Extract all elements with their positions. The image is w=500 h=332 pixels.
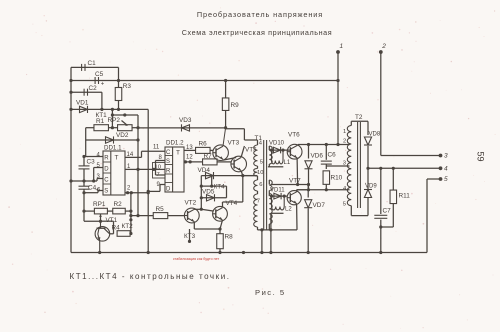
wire VT2 collector [194, 208, 203, 211]
wire R1 row left [86, 127, 94, 129]
pin 12 label DD1.2 [186, 155, 193, 161]
node C7 rail [379, 251, 382, 254]
resistor R4 [112, 225, 131, 237]
svg-text:VD2: VD2 [116, 132, 129, 139]
wire T1 pin5 under L1 [268, 166, 283, 168]
pin 2 label DD1.1 [127, 186, 131, 192]
resistor R11 [381, 168, 410, 227]
wire T1 pin7 under L2 [271, 212, 284, 214]
diode VD11 [270, 188, 285, 200]
svg-text:R7: R7 [204, 153, 213, 160]
svg-text:C7: C7 [383, 208, 392, 215]
svg-text:VD10: VD10 [269, 141, 285, 147]
node VD7 rail [307, 251, 310, 254]
pin 2 label T2 [343, 139, 346, 145]
svg-text:VD5: VD5 [202, 189, 215, 196]
svg-text:10: 10 [257, 170, 263, 176]
wire VD10 row [270, 149, 290, 152]
pin 10 label T1 [257, 170, 263, 176]
wire VD11 row [270, 195, 288, 198]
svg-text:7: 7 [257, 199, 260, 205]
svg-text:L2: L2 [285, 207, 292, 213]
transformer T2 [347, 114, 363, 216]
wire VT6 emitter [296, 158, 299, 186]
caption Рис. 5 [255, 288, 286, 297]
transistor VT7 [287, 178, 301, 205]
svg-text:T: T [115, 155, 119, 162]
diode VD4 [198, 167, 214, 179]
svg-text:VT2: VT2 [185, 200, 197, 207]
wire R6 to VT3 [210, 149, 213, 151]
wire feedback pin1 to DD1.2 [138, 168, 156, 170]
svg-text:1: 1 [340, 43, 344, 50]
wire top rail y80 [71, 80, 338, 82]
wire VT7 collector [297, 190, 309, 192]
diode VD5 [202, 189, 215, 202]
resistor R7 [203, 153, 218, 165]
wire VT4 emitter [218, 220, 222, 231]
pins 10-7 box DD1.2 [152, 163, 165, 179]
svg-text:3: 3 [343, 161, 346, 167]
pin 8 stub DD1.2 [156, 155, 166, 169]
wire R5 row [129, 214, 153, 217]
svg-text:C: C [166, 150, 171, 156]
resistor R1 [94, 118, 109, 131]
potentiometer RP2 [108, 117, 133, 131]
node VD2 bus [136, 138, 139, 141]
wire RP1 row [82, 210, 94, 213]
wire T1 pin10 left [243, 175, 258, 177]
svg-text:R1: R1 [96, 118, 105, 125]
wire T1 pin4 feed [226, 128, 258, 140]
svg-text:VT3: VT3 [228, 140, 240, 147]
svg-text:VD9: VD9 [365, 184, 377, 190]
svg-text:S: S [166, 159, 170, 165]
svg-text:DD1.2: DD1.2 [166, 140, 184, 147]
wire T2 pin1 top route [351, 121, 368, 135]
svg-text:12: 12 [186, 155, 193, 161]
svg-text:C2: C2 [89, 85, 98, 92]
wire VD4 row [201, 175, 243, 177]
svg-text:R11: R11 [399, 193, 411, 200]
title line 1 [197, 10, 323, 19]
pin 5 label DD1.1 [97, 163, 101, 169]
svg-text:L1: L1 [284, 160, 291, 166]
wire DD1.1 pin6 [82, 191, 103, 195]
diode VD2 [106, 132, 129, 144]
svg-text:3: 3 [444, 153, 448, 160]
transistor VT6 [287, 132, 302, 160]
svg-text:R: R [104, 156, 109, 162]
wire KT4 drop [226, 186, 228, 198]
wire R4 left [110, 233, 114, 235]
svg-text:S: S [104, 189, 108, 195]
wire VT5 collector [241, 146, 244, 157]
wire DD1.1 pin3 row [69, 179, 103, 183]
potentiometer RP1 [93, 201, 107, 221]
svg-text:RP1: RP1 [93, 201, 106, 208]
node VD3 right [224, 126, 227, 129]
flip-flop DD1.2 [165, 140, 184, 193]
wire terminal1 down [336, 52, 339, 146]
wire bottom rail [71, 252, 427, 254]
wire R2 right [125, 210, 132, 213]
wire VT4 base feed [201, 209, 213, 211]
diode VD1 [76, 100, 89, 114]
node VD6 bottom [307, 183, 310, 192]
resistor R10 [323, 171, 343, 190]
wire left rail [70, 67, 72, 252]
title line 2 [182, 28, 333, 37]
svg-text:R10: R10 [331, 175, 343, 182]
diode VD10 [269, 141, 285, 154]
pin 11 label DD1.2 [153, 145, 160, 151]
capacitor C5 [95, 71, 105, 88]
node R1-RP2 [108, 126, 117, 129]
diode VD8 [364, 132, 381, 169]
svg-text:R6: R6 [199, 141, 208, 148]
note KT1..KT4 [70, 272, 231, 281]
pin 1 label DD1.1 [127, 164, 131, 170]
wire VD2 to C3 drop [84, 140, 86, 157]
node rail-C2 [69, 91, 72, 94]
resistor R8 [217, 229, 233, 253]
svg-text:КТ1...КТ4 - контрольные точк: КТ1...КТ4 - контрольные точки. [70, 272, 231, 281]
wire R1 left drop [85, 128, 87, 140]
wire VD2 row [86, 139, 138, 141]
pin 7 label T1 [257, 199, 260, 205]
svg-text:4: 4 [444, 166, 448, 173]
svg-text:11: 11 [153, 145, 160, 151]
svg-text:5: 5 [343, 202, 346, 208]
transistor VT3 [213, 140, 240, 161]
test point KT4 [214, 184, 226, 191]
terminal 3 [439, 153, 448, 160]
svg-text:R3: R3 [123, 83, 132, 90]
terminal 4 [439, 166, 448, 173]
pin 6 label T1 [259, 182, 262, 188]
svg-text:Рис. 5: Рис. 5 [255, 288, 286, 297]
svg-text:T2: T2 [355, 114, 363, 121]
svg-text:DD1.1: DD1.1 [104, 145, 122, 152]
svg-text:5: 5 [260, 160, 263, 166]
red watermark [173, 257, 220, 261]
transistor VT1 [95, 217, 118, 253]
wire VD5 row [201, 197, 226, 199]
pin 1 label T2 [343, 129, 346, 135]
wire KT4 row [201, 176, 226, 188]
wire KT1 to bus [112, 113, 138, 116]
page number 59 [476, 151, 486, 161]
wire wiper to R4 [101, 221, 114, 234]
flip-flop DD1.1 [103, 145, 125, 196]
wire T1 pin10 right [271, 184, 309, 186]
wire pin12 row [184, 160, 203, 163]
diode VD6 [305, 145, 324, 190]
svg-text:C5: C5 [95, 71, 104, 78]
wire R5 to VT2 [168, 215, 184, 217]
wire C2 drop [101, 92, 103, 109]
inductor L1 [272, 150, 291, 166]
wire VT6 collector [296, 145, 299, 146]
wire L2 underline drop [269, 213, 272, 254]
capacitor C7 [374, 168, 391, 252]
wire right bus x148 [147, 109, 150, 254]
inductor L2 [272, 196, 293, 212]
svg-text:C1: C1 [88, 60, 97, 67]
wire VD1 row [71, 108, 148, 110]
wire pin9 route [148, 185, 165, 192]
pin 3 label T2 [343, 161, 346, 167]
transistor VT2 [184, 200, 199, 223]
pin 4 label DD1.1 [97, 153, 101, 159]
wire VT2 emitter [194, 222, 220, 229]
wire terminal5 row [427, 179, 441, 253]
transformer T1 [254, 135, 273, 230]
svg-text:D: D [166, 187, 171, 193]
svg-text:VT1: VT1 [106, 217, 118, 224]
wire C1 row [71, 66, 119, 68]
node rail x244 [242, 251, 245, 254]
pin 3 label DD1.1 [97, 174, 101, 180]
svg-text:1: 1 [343, 129, 346, 135]
svg-text:R4: R4 [112, 225, 121, 232]
svg-text:VT4: VT4 [226, 200, 238, 207]
wire RP1-R2 [107, 210, 113, 212]
svg-text:2: 2 [381, 43, 386, 50]
svg-text:5: 5 [444, 176, 448, 183]
pin 13 label DD1.2 [186, 145, 193, 151]
pin 9 label DD1.2 [157, 182, 161, 188]
svg-text:VT7: VT7 [289, 178, 301, 185]
svg-text:КТ2: КТ2 [122, 223, 134, 230]
capacitor C3 [79, 157, 96, 182]
wire DD1.1 pin2 row [125, 191, 148, 194]
svg-text:59: 59 [476, 151, 486, 161]
wire T2 pin2 row [298, 143, 350, 146]
wire VT7 emitter [296, 204, 298, 230]
terminal 1 [336, 43, 343, 54]
svg-text:VT6: VT6 [288, 132, 300, 139]
wire VT3 collector [223, 128, 226, 146]
capacitor C2 [84, 85, 97, 96]
wire VT3 emitter to VT5 [223, 158, 236, 161]
test point KT1 [96, 112, 115, 119]
node VT1 emitter rail [98, 251, 101, 254]
test point KT3 [184, 229, 196, 243]
capacitor C4 [79, 181, 99, 194]
resistor R9 [222, 79, 239, 128]
pin 4 label T2 [343, 186, 347, 192]
wire T1 bottom row [258, 228, 298, 231]
node R8 rail [218, 251, 221, 254]
wire RP2 to bus [132, 126, 140, 129]
terminal 2 [379, 43, 386, 54]
wire DD1.1 pin14 elbow [125, 151, 165, 157]
wire T2 pin4 row [297, 188, 350, 191]
svg-text:C: C [104, 178, 109, 184]
wire DD1.1 pin4 [82, 155, 103, 158]
wire T2 pin5 bottom route [351, 215, 368, 217]
diode VD9 [364, 168, 377, 215]
node VD1-C2 [100, 108, 103, 111]
wire VD3 row [138, 127, 226, 129]
wire VT5 emitter [241, 171, 244, 177]
svg-text:Преобразователь напряжения: Преобразователь напряжения [197, 10, 323, 19]
svg-text:VD7: VD7 [313, 202, 326, 209]
svg-text:VD4: VD4 [198, 167, 211, 174]
terminal 5 [439, 176, 448, 183]
capacitor C6 [321, 145, 336, 165]
node C1-rail corner [69, 79, 72, 82]
svg-text:T: T [176, 150, 180, 157]
wire DD1.1 pin1 [125, 168, 140, 171]
svg-text:+: + [101, 82, 105, 88]
pin 6 label DD1.1 [97, 188, 101, 194]
svg-text:C6: C6 [328, 152, 337, 159]
diode VD3 [179, 117, 192, 132]
svg-text:VD3: VD3 [179, 117, 192, 124]
svg-text:VD1: VD1 [76, 100, 89, 107]
svg-text:D: D [104, 167, 109, 173]
svg-text:Схема электрическая принципиал: Схема электрическая принципиальная [182, 28, 333, 37]
pin 5 label T1 [260, 160, 263, 166]
wire wiper row [84, 211, 102, 223]
svg-text:VD6: VD6 [311, 153, 324, 160]
svg-text:R5: R5 [156, 206, 165, 213]
node VD1 rail [69, 108, 72, 111]
wire R7 to VT5 [217, 161, 231, 163]
node KT1 tap [111, 108, 114, 115]
svg-text:КТ4: КТ4 [214, 184, 226, 191]
wire bus A [137, 115, 139, 216]
svg-text:R: R [166, 169, 171, 175]
svg-text:RP2: RP2 [108, 117, 121, 124]
wire terminal2 down [381, 52, 441, 156]
pin 14 label DD1.1 [127, 152, 134, 158]
wire output row 4 [366, 167, 440, 170]
diode VD7 [304, 185, 325, 253]
svg-text:стабилизация как будто нет: стабилизация как будто нет [173, 257, 220, 261]
transistor VT5 [231, 147, 257, 172]
wire C4 drop to RP1 [83, 193, 85, 211]
wire R2R4 vertical [129, 193, 132, 234]
resistor R6 [196, 141, 211, 154]
svg-text:VD11: VD11 [270, 188, 285, 194]
svg-text:2: 2 [343, 139, 346, 145]
transistor VT4 [213, 200, 238, 221]
resistor R5 [153, 206, 168, 219]
svg-text:R8: R8 [225, 234, 234, 241]
svg-text:VD8: VD8 [369, 132, 381, 138]
wire VD4 row to T1 [243, 175, 258, 177]
wire KT1 drop to R1 [111, 115, 113, 128]
wire T1 pin7 to rail [260, 230, 263, 254]
wire DD1.1 pin5 elbow [92, 168, 103, 183]
svg-text:6: 6 [259, 182, 262, 188]
svg-text:R9: R9 [231, 102, 240, 109]
wire VD4 left vertical [200, 176, 203, 210]
wire C1 right drop [118, 67, 120, 80]
resistor R3 [115, 79, 131, 111]
resistor R2 [113, 201, 126, 214]
test point KT2 [122, 223, 134, 235]
capacitor C1 [82, 60, 97, 71]
wire VT4 collector route [223, 176, 243, 208]
wire pin13 row [184, 149, 196, 151]
svg-text:R2: R2 [114, 201, 123, 208]
wire C2 row [71, 91, 102, 93]
wire T2 pin3 row [326, 164, 349, 169]
svg-text:C3: C3 [87, 159, 96, 166]
pin 5 label T2 [343, 202, 346, 208]
